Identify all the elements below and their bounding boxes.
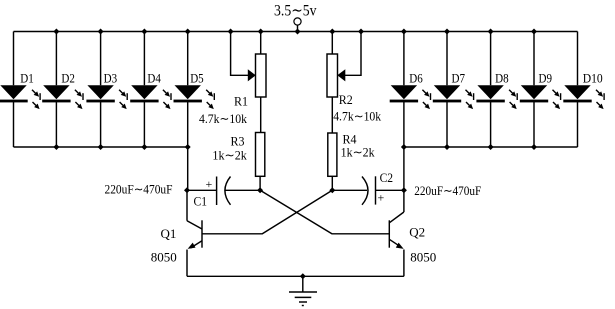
svg-text:R3: R3 xyxy=(231,134,245,149)
svg-text:4.7k∼10k: 4.7k∼10k xyxy=(199,111,247,126)
svg-text:R1: R1 xyxy=(234,94,248,109)
svg-text:D4: D4 xyxy=(147,70,161,85)
svg-text:D1: D1 xyxy=(20,70,34,85)
svg-text:220uF∼470uF: 220uF∼470uF xyxy=(414,183,481,198)
svg-text:D3: D3 xyxy=(104,70,118,85)
svg-text:8050: 8050 xyxy=(410,250,436,265)
svg-text:Q2: Q2 xyxy=(409,225,425,240)
svg-text:D8: D8 xyxy=(495,70,509,85)
svg-text:1k∼2k: 1k∼2k xyxy=(212,148,247,163)
svg-text:D5: D5 xyxy=(190,70,204,85)
svg-text:D2: D2 xyxy=(61,70,75,85)
svg-text:C1: C1 xyxy=(194,194,208,209)
svg-text:4.7k∼10k: 4.7k∼10k xyxy=(333,109,381,124)
svg-text:+: + xyxy=(378,191,385,205)
svg-text:D7: D7 xyxy=(452,70,466,85)
svg-text:220uF∼470uF: 220uF∼470uF xyxy=(105,182,173,197)
svg-text:C2: C2 xyxy=(380,170,394,185)
svg-text:3.5∼5v: 3.5∼5v xyxy=(274,2,317,19)
svg-text:R2: R2 xyxy=(339,92,353,107)
svg-text:D9: D9 xyxy=(539,70,553,85)
svg-text:8050: 8050 xyxy=(151,250,177,265)
svg-text:1k∼2k: 1k∼2k xyxy=(341,145,375,160)
svg-text:D6: D6 xyxy=(409,70,423,85)
svg-text:+: + xyxy=(206,177,213,191)
svg-text:Q1: Q1 xyxy=(161,226,177,241)
svg-text:D10: D10 xyxy=(583,70,603,85)
